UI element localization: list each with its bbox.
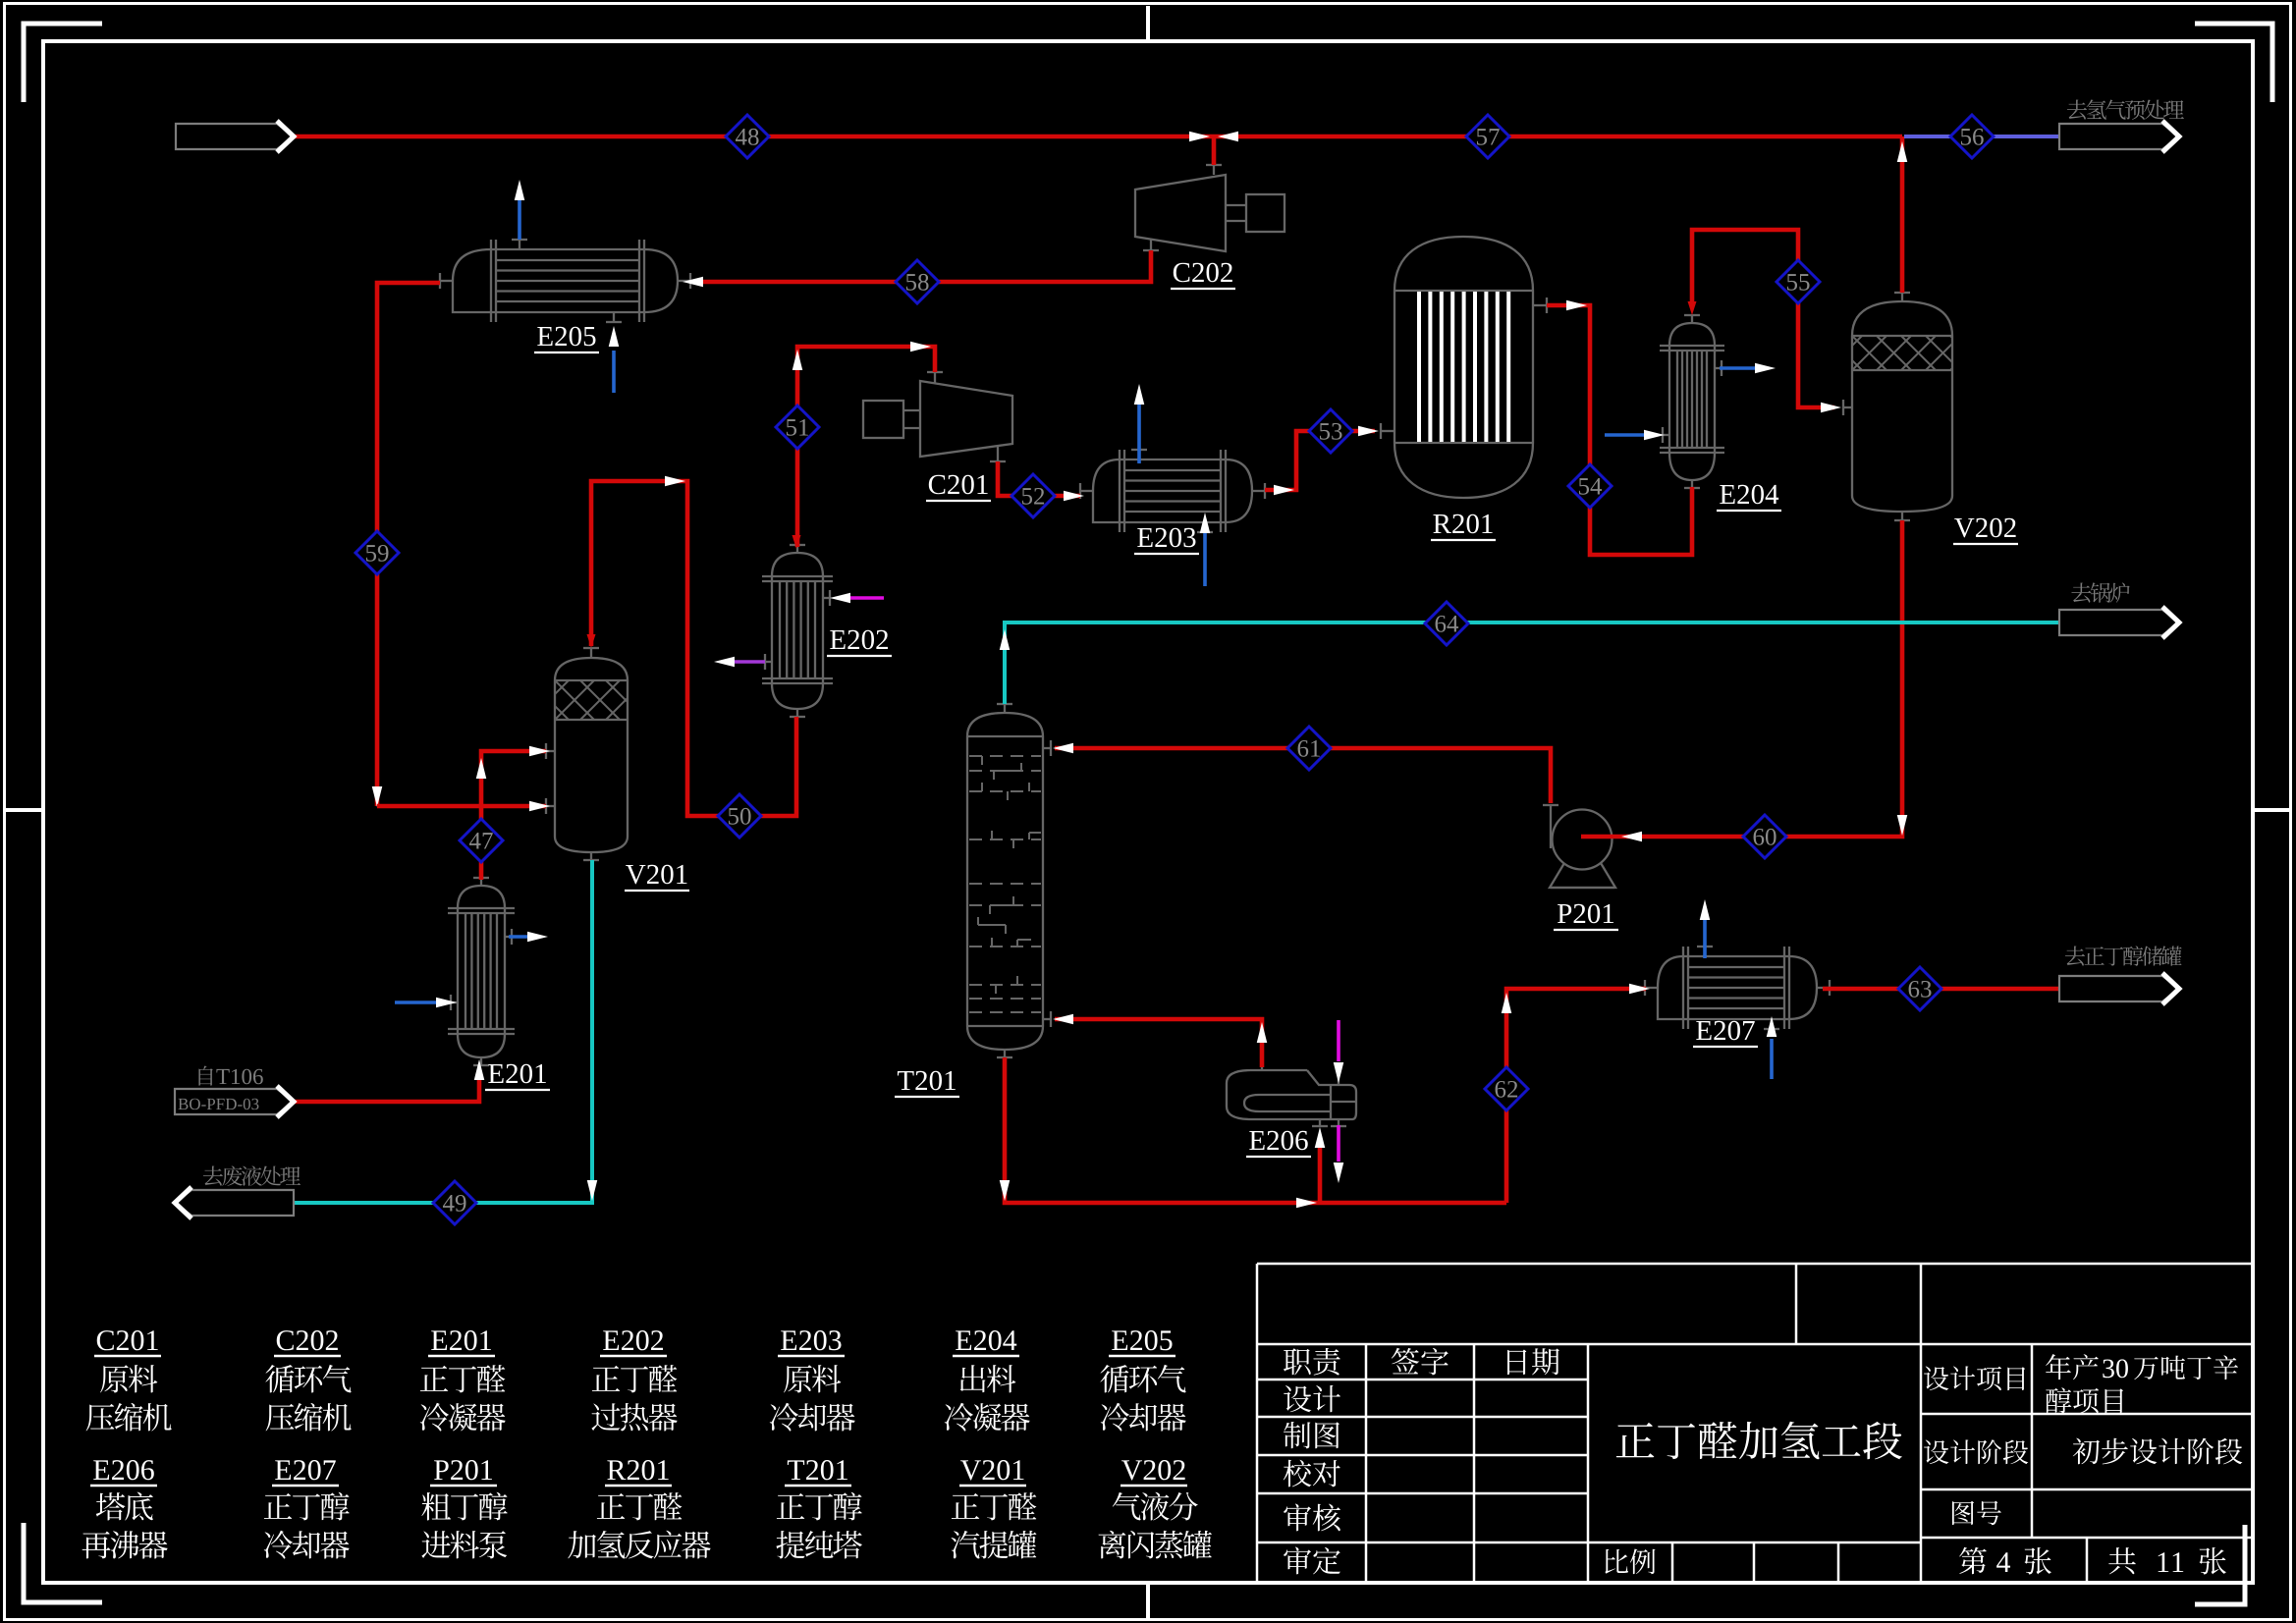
E205 cooling water outlet (top) xyxy=(518,200,521,240)
wire stream 58 C202 discharge to E205 xyxy=(699,250,1151,282)
centering tick bottom xyxy=(1146,1585,1150,1618)
sheet numbers xyxy=(1959,1547,1987,1574)
stream tag diamond 59 xyxy=(355,531,399,574)
pump P201 (crude butanol feed pump) xyxy=(1543,805,1615,888)
arrow E206 return upward xyxy=(1257,1022,1268,1043)
E204 cooling water outlet (right) xyxy=(1720,366,1756,370)
arrow into E204 top xyxy=(1688,301,1697,315)
arrow stream 62 into E207 xyxy=(1629,984,1650,995)
column T201 (n-butanol purification column) xyxy=(967,704,1051,1057)
reboiler E206 (column bottoms kettle reboiler) xyxy=(1227,1063,1356,1126)
arrow V201 top feed xyxy=(587,634,596,648)
E201 cooling water outlet (right) xyxy=(509,935,528,939)
stream tag diamond 61 xyxy=(1287,727,1331,770)
stream tag diamond 64 xyxy=(1425,602,1468,645)
arrow stream 62 upward at corner xyxy=(1502,993,1512,1013)
centering tick top xyxy=(1146,6,1150,39)
corner trim mark top-left xyxy=(24,24,102,102)
entry flag stream 48 xyxy=(176,124,294,149)
T201 internals (trays) xyxy=(969,756,1041,1012)
E203 cooling water inlet (bottom) xyxy=(1203,533,1207,586)
arrow into V201 lower feed nozzle xyxy=(529,801,550,812)
legend C202 xyxy=(277,1330,338,1350)
arrow into E202 top xyxy=(793,535,801,549)
wire stream 51 E202 to C201 suction xyxy=(797,347,935,547)
stream tag diamond 62 xyxy=(1485,1067,1528,1110)
arrow stream 60 into P201 xyxy=(1621,832,1642,842)
arrow on bottoms header xyxy=(1296,1198,1317,1209)
stream tag diamond 63 xyxy=(1898,967,1941,1010)
arrow stream 49 downward xyxy=(587,1180,598,1201)
stream tag diamond 50 xyxy=(718,794,761,838)
legend E203 xyxy=(781,1330,841,1350)
wire V201 lower feed line xyxy=(377,804,546,809)
arrow into E206 bottom xyxy=(1315,1127,1326,1148)
E201 cooling water inlet (left) xyxy=(395,1001,436,1004)
legend T201 xyxy=(788,1460,847,1480)
arrow stream 51 upward xyxy=(793,350,803,370)
R201 catalyst tubes xyxy=(1419,292,1508,442)
arrow stream 61 into T201 xyxy=(1053,743,1073,754)
corner trim mark bottom-left xyxy=(24,1523,102,1602)
exit flag to boiler xyxy=(2059,610,2179,635)
wire stream 59 E205 to V201 junction xyxy=(377,283,440,806)
E205 cooling water inlet (bottom) xyxy=(612,351,616,393)
stream tag diamond 52 xyxy=(1011,474,1055,517)
legend V202 xyxy=(1121,1460,1185,1480)
E206 heating steam outlet (magenta) xyxy=(1337,1125,1340,1162)
wire entry line from T106 (BO-PFD-03) xyxy=(294,1077,479,1102)
stream tag diamond 57 xyxy=(1466,115,1509,158)
arrow T201 bottoms downward xyxy=(1000,1180,1011,1201)
drawing title xyxy=(1616,1422,1902,1460)
E202 heating medium outlet (left, purple) xyxy=(734,660,765,664)
wire stream 47 E201 to V201 upper nozzle xyxy=(481,751,546,880)
E203 cooling water outlet (top) xyxy=(1137,405,1141,463)
stream tag diamond 58 xyxy=(896,260,939,303)
exit flag to waste liquid treatment xyxy=(175,1190,294,1216)
wire stream 55 E204 top to V202 xyxy=(1692,230,1834,407)
exit flag to n-butanol storage tank xyxy=(2059,976,2179,1001)
vessel V201 (butyraldehyde stripping drum) xyxy=(546,648,628,860)
wire stream 49 V201 bottoms to waste flag (cyan) xyxy=(294,860,592,1203)
legend V201 xyxy=(960,1460,1023,1480)
stream tag diamond 56 xyxy=(1950,115,1994,158)
legend E206 xyxy=(93,1460,154,1480)
legend E202 xyxy=(603,1330,663,1350)
stream tag diamond 47 xyxy=(460,819,503,862)
heat exchanger E204 (effluent condenser) xyxy=(1660,315,1724,488)
corner trim mark bottom-right xyxy=(2195,1525,2245,1604)
arrow stream 58 into E205 xyxy=(683,277,703,288)
E201 side nozzles xyxy=(505,936,512,938)
heat exchanger E201 (butyraldehyde condenser) xyxy=(448,878,515,1065)
project fields xyxy=(1924,1366,2025,1390)
arrow stream 55 into V202 xyxy=(1821,403,1841,413)
arrow after E203 xyxy=(1274,485,1294,496)
legend E207 xyxy=(275,1460,336,1480)
entry flag from T106 / BO-PFD-03 xyxy=(175,1089,294,1114)
reactor R201 (hydrogenation reactor) xyxy=(1381,237,1547,498)
arrow stream 51 into C201 xyxy=(910,342,931,352)
arrow into C202 junction from stream 57 xyxy=(1218,132,1238,142)
vessel V202 (gas-liquid flash separator) xyxy=(1843,293,1952,520)
exit flag to hydrogen pretreatment xyxy=(2059,124,2179,149)
centering tick left xyxy=(6,808,41,812)
arrow on V201 overhead horizontal xyxy=(665,476,685,487)
wire V202 overhead riser to stream 57 xyxy=(1900,136,1905,293)
wire stream 62 bottoms to E207 xyxy=(1506,989,1646,1203)
wire stream 54 R201 outlet to E204 bottom xyxy=(1547,305,1692,555)
E207 cooling water outlet (top) xyxy=(1703,920,1707,958)
arrow stream 53 into R201 xyxy=(1358,426,1379,437)
arrow stream 59 downward at junction xyxy=(372,786,383,807)
wire E206 return to T201 xyxy=(1055,1019,1262,1067)
wire stream 63 E207 to product flag xyxy=(1823,987,2059,992)
stream tag diamond 53 xyxy=(1309,409,1352,453)
arrow into V201 upper feed nozzle xyxy=(529,746,550,757)
wire stream 56 hydrogen purge (blue) xyxy=(1904,135,2059,138)
arrow stream 52 into E203 xyxy=(1064,491,1084,502)
compressor C202 (recycle gas compressor) xyxy=(1135,165,1285,251)
stream tag diamond 51 xyxy=(776,406,819,449)
wire stream 64 T201 overhead to boiler flag (cyan) xyxy=(1005,622,2059,704)
title block grid xyxy=(1257,1264,2253,1583)
heat exchanger E207 (n-butanol cooler) xyxy=(1645,947,1830,1029)
arrow into C202 junction from stream 48 xyxy=(1189,132,1210,142)
wire C202 suction drop xyxy=(1212,136,1217,165)
wire E206 bottom riser xyxy=(1318,1144,1323,1203)
arrow V202 overhead upward xyxy=(1897,141,1908,162)
legend P201 xyxy=(434,1460,492,1480)
E202 heating medium inlet (right, magenta) xyxy=(847,596,884,600)
wire T201 bottoms header xyxy=(1005,1057,1506,1203)
arrow on R201 outlet xyxy=(1566,300,1587,311)
heat exchanger E202 (butyraldehyde superheater) xyxy=(762,545,833,717)
arrow into E201 bottom xyxy=(474,1059,485,1080)
centering tick right xyxy=(2255,808,2289,812)
E207 cooling water inlet (bottom) xyxy=(1770,1039,1774,1079)
corner trim mark top-right xyxy=(2195,24,2272,102)
legend E204 xyxy=(956,1330,1016,1350)
stream tag diamond 60 xyxy=(1743,815,1786,858)
E204 side nozzles xyxy=(1715,367,1722,369)
wire stream 53 E203 to R201 xyxy=(1265,431,1375,490)
stream tag diamond 54 xyxy=(1568,464,1612,508)
stream tag diamond 48 xyxy=(726,115,769,158)
heat exchanger E205 (recycle gas cooler) xyxy=(440,240,690,322)
legend R201 xyxy=(607,1460,668,1480)
stream tag diamond 49 xyxy=(433,1181,476,1224)
arrow stream 47 upward xyxy=(476,758,487,779)
E206 heating steam inlet (magenta) xyxy=(1337,1020,1340,1061)
wire stream 52 C201 discharge to E203 xyxy=(998,461,1080,496)
compressor C201 (feed gas compressor) xyxy=(863,372,1012,461)
wire stream 48 feed-gas header (entry to C202 junction) xyxy=(294,135,1902,139)
wire V201 overhead to E202 via stream 50 xyxy=(591,481,796,816)
wire stream 61 P201 discharge to T201 xyxy=(1055,748,1551,803)
arrow stream 64 upward xyxy=(1000,629,1011,650)
stream tag diamond 55 xyxy=(1777,260,1820,303)
arrow E206 return into T201 xyxy=(1053,1014,1073,1025)
legend E205 xyxy=(1112,1330,1172,1350)
heat exchanger E203 (feed cooler) xyxy=(1080,450,1265,532)
legend C201 xyxy=(97,1330,158,1350)
E202 side nozzles xyxy=(823,597,830,599)
arrow V202 bottoms downward xyxy=(1897,815,1908,836)
wire stream 60 V202 bottoms to P201 xyxy=(1581,520,1902,837)
title block labels xyxy=(1284,1348,1340,1376)
E204 cooling water inlet (left) xyxy=(1605,433,1644,437)
legend E201 xyxy=(431,1330,491,1350)
